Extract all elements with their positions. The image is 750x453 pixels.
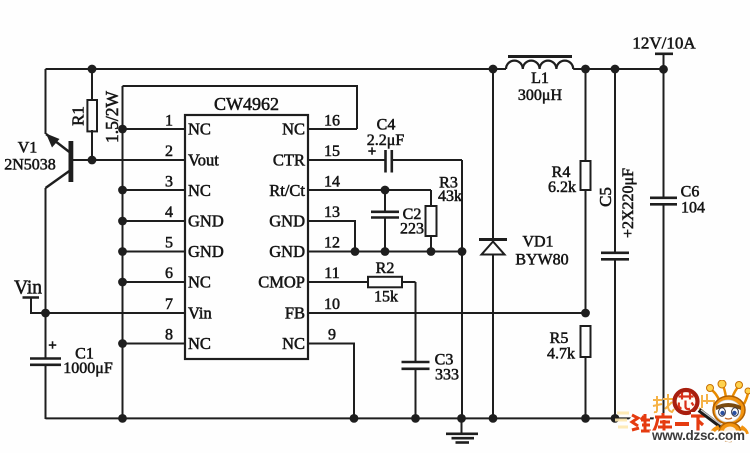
node bus-pin6 junction (118, 278, 127, 287)
capacitor C5 (601, 69, 629, 419)
svg-text:7: 7 (165, 296, 173, 313)
wire top rail left segment (46, 68, 507, 70)
watermark magnifier with chip char xin (675, 390, 698, 413)
node VD1-top rail junction (489, 65, 498, 74)
svg-text:Vin: Vin (188, 304, 212, 323)
resistor R3 (426, 190, 437, 252)
watermark char wei (632, 414, 651, 432)
svg-text:223: 223 (400, 221, 424, 238)
svg-text:16: 16 (324, 113, 340, 130)
watermark speed lines (615, 413, 629, 427)
svg-text:10: 10 (324, 296, 340, 313)
svg-text:13: 13 (324, 204, 340, 221)
svg-text:CMOP: CMOP (258, 273, 305, 292)
wire pin5 stub (123, 251, 186, 253)
svg-text:CTR: CTR (273, 151, 305, 170)
svg-text:4: 4 (165, 204, 173, 221)
resistor R2 (368, 277, 402, 288)
wire bus top to pin16 (123, 86, 358, 129)
svg-text:GND: GND (188, 242, 224, 261)
svg-text:6.2k: 6.2k (548, 179, 576, 196)
node R3-pin12 junction (427, 247, 436, 256)
node C3-bottom rail junction (411, 414, 420, 423)
svg-text:Vin: Vin (14, 278, 42, 299)
node bus-ground rail junction (118, 414, 127, 423)
wire pin14 Rt/Ct (308, 189, 431, 191)
svg-text:9: 9 (328, 327, 336, 344)
wire transistor collector lead vertical (45, 188, 47, 313)
node VD1-bottom rail junction (489, 414, 498, 423)
svg-text:NC: NC (188, 334, 211, 353)
inductor L1 core bar (508, 55, 572, 58)
wire pin8 stub (123, 343, 186, 345)
svg-text:L1: L1 (531, 70, 549, 87)
wire C4 to ground line (392, 160, 462, 419)
wire transistor emitter lead vertical (45, 69, 47, 134)
wire NC bus vertical (122, 86, 124, 419)
svg-text:8: 8 (165, 327, 173, 344)
svg-text:12V/10A: 12V/10A (632, 34, 696, 53)
svg-text:2: 2 (165, 143, 173, 160)
watermark char yi (675, 422, 689, 426)
terminal Vin (23, 298, 46, 314)
svg-text:43k: 43k (438, 188, 462, 205)
svg-text:104: 104 (681, 200, 705, 217)
svg-text:300μH: 300μH (518, 87, 563, 104)
svg-text:C6: C6 (681, 184, 700, 201)
svg-text:3: 3 (165, 174, 173, 191)
capacitor C1 (30, 313, 61, 419)
node dot R1 top (88, 65, 97, 74)
svg-text:V1: V1 (18, 140, 38, 157)
svg-text:5: 5 (165, 235, 173, 252)
node pin9-bottom rail junction (350, 414, 359, 423)
svg-text:6: 6 (165, 265, 173, 282)
watermark halo (632, 413, 706, 432)
svg-text:14: 14 (324, 174, 340, 191)
svg-text:GND: GND (269, 212, 305, 231)
svg-text:NC: NC (188, 181, 211, 200)
watermark char zhao (outline) (653, 394, 674, 412)
diode VD1 (479, 69, 507, 419)
svg-text:BYW80: BYW80 (515, 252, 568, 269)
capacitor C2 (371, 190, 399, 252)
node C5-top rail junction (611, 65, 620, 74)
node ground symbol junction (457, 414, 466, 423)
svg-text:VD1: VD1 (522, 234, 553, 251)
wire pin10 FB (308, 312, 586, 314)
svg-text:11: 11 (324, 265, 339, 282)
wire bottom rail (46, 417, 664, 419)
svg-text:NC: NC (188, 120, 211, 139)
node dot FB divider (581, 309, 590, 318)
wire pin11 CMOP to R2 (308, 281, 368, 283)
svg-text:C4: C4 (377, 117, 396, 134)
node bus-pin5 junction (118, 247, 127, 256)
svg-text:GND: GND (188, 212, 224, 231)
watermark logo (615, 376, 750, 451)
svg-text:4.7k: 4.7k (547, 346, 575, 363)
wire pin4 stub (123, 220, 186, 222)
wire pin13 to pin12 bus (308, 221, 355, 252)
resistor R1 (87, 69, 97, 160)
svg-text:C5: C5 (596, 187, 615, 207)
inductor L1 (506, 61, 573, 69)
svg-text:R2: R2 (376, 260, 395, 277)
node L1-R4 top rail junction (581, 65, 590, 74)
wire pin15 CTR to C4 (308, 159, 385, 161)
svg-text:R1: R1 (69, 106, 88, 126)
svg-text:12: 12 (324, 235, 340, 252)
op-amp U1 CW4962 IC box (185, 115, 308, 359)
svg-text:FB: FB (285, 304, 305, 323)
node dot Vin junction (41, 309, 50, 318)
svg-text:2.2μF: 2.2μF (367, 132, 405, 149)
wire pin1 stub (123, 128, 186, 130)
watermark pen (699, 410, 728, 432)
wire pin12 bus (308, 251, 462, 253)
node bus-pin4 junction (118, 217, 127, 226)
node C5-bottom rail junction (611, 414, 620, 423)
svg-text:1000μF: 1000μF (63, 360, 113, 377)
resistor R5 (581, 326, 591, 419)
capacitor C3 (402, 362, 430, 419)
svg-text:1: 1 (165, 113, 173, 130)
svg-text:NC: NC (282, 120, 305, 139)
ground symbol (446, 418, 478, 443)
node bus-pin3 junction (118, 186, 127, 195)
svg-text:Rt/Ct: Rt/Ct (269, 181, 305, 200)
svg-text:15k: 15k (374, 289, 398, 306)
svg-text:15: 15 (324, 143, 340, 160)
watermark char xia (691, 416, 706, 432)
node pin13-pin12 junction (351, 247, 360, 256)
transistor V1 (46, 134, 74, 189)
svg-text:333: 333 (435, 367, 459, 384)
watermark char pian (outline) (699, 394, 714, 411)
watermark char ku (653, 413, 672, 432)
svg-text:Vout: Vout (188, 151, 219, 170)
capacitor C6 (650, 198, 677, 419)
svg-text:CW4962: CW4962 (214, 94, 279, 114)
node output-top rail junction (659, 65, 668, 74)
resistor R4 (581, 69, 591, 313)
svg-text:1.5/2W: 1.5/2W (102, 91, 122, 143)
svg-text:+2X220μF: +2X220μF (620, 168, 637, 238)
node pin12-ground line junction (458, 247, 467, 256)
wire pin6 stub (123, 281, 186, 283)
node bus-pin8 junction (118, 339, 127, 348)
wire R2 to C3 (402, 282, 416, 362)
wire pin3 stub (123, 189, 186, 191)
node R5-bottom rail junction (581, 414, 590, 423)
watermark dzsc url (652, 428, 745, 443)
node dot R1 bottom / base (88, 156, 97, 165)
svg-text:R5: R5 (550, 330, 569, 347)
terminal 12V/10A (655, 54, 673, 198)
node dot C2 top (381, 186, 390, 195)
svg-text:NC: NC (282, 334, 305, 353)
wire top rail right segment (573, 68, 663, 70)
wire pin7 Vin (46, 312, 186, 314)
capacitor C4 (386, 150, 392, 173)
svg-text:GND: GND (269, 242, 305, 261)
svg-text:+: + (48, 338, 57, 354)
wire pin9 down to rail (308, 344, 354, 420)
svg-text:NC: NC (188, 273, 211, 292)
node C2-pin12 junction (381, 247, 390, 256)
wire base to pin2 Vout (72, 159, 185, 161)
watermark mascot (706, 380, 750, 443)
node bus-pin1 junction (118, 125, 127, 134)
svg-text:2N5038: 2N5038 (4, 157, 56, 174)
